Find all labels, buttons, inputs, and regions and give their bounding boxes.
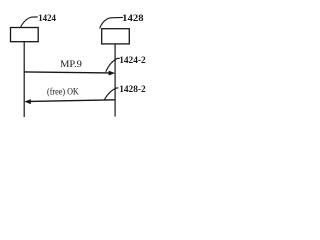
- svg-text:1428-2: 1428-2: [119, 85, 146, 95]
- svg-text:1424: 1424: [38, 14, 56, 24]
- svg-text:1428: 1428: [122, 14, 144, 24]
- svg-text:1424-2: 1424-2: [119, 56, 146, 66]
- svg-text:(free) OK: (free) OK: [47, 86, 79, 97]
- svg-text:MP.9: MP.9: [60, 60, 82, 70]
